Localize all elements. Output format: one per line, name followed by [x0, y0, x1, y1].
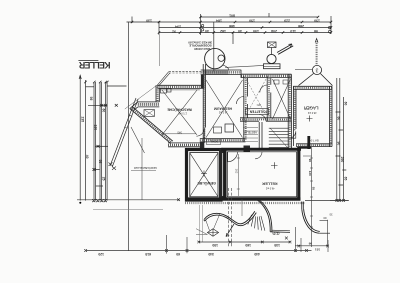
- svg-text:162: 162: [235, 169, 239, 174]
- title overline: [78, 59, 98, 61]
- svg-text:HEIZRAUM: HEIZRAUM: [214, 106, 232, 110]
- svg-text:160: 160: [245, 243, 251, 247]
- heizraum interior X: [206, 80, 243, 138]
- svg-text:TOILETTEN: TOILETTEN: [249, 109, 267, 113]
- svg-text:440: 440: [254, 252, 260, 256]
- terrain dashed line above north wall: [169, 71, 204, 73]
- svg-text:101: 101: [315, 248, 320, 252]
- lager north wall: [293, 86, 332, 89]
- svg-text:90: 90: [308, 159, 312, 163]
- dim boundary vertical x132: [131, 17, 133, 24]
- toiletten boxed label: [246, 109, 269, 115]
- zipper leader above circle 3: [316, 42, 318, 66]
- svg-text:46.0 m2: 46.0 m2: [265, 187, 274, 190]
- svg-text:294: 294: [175, 24, 181, 28]
- dim line L2: [159, 27, 331, 29]
- leader diagonal 2: [131, 127, 145, 153]
- wall vorkeller/toilet: [267, 76, 271, 122]
- svg-text:KELLER: KELLER: [78, 60, 110, 70]
- svg-text:95: 95: [98, 160, 102, 164]
- toilet room X: [273, 79, 291, 119]
- svg-text:3: 3: [315, 66, 318, 72]
- pipe line boiler to pump: [225, 65, 263, 67]
- light verticals x199.6/202.6: [199, 205, 201, 242]
- svg-text:120: 120: [308, 171, 312, 176]
- leader vertical x233: [232, 33, 234, 44]
- wall stub dark: [244, 146, 251, 152]
- svg-text:162: 162: [220, 29, 226, 33]
- terrain diagonal NW: [125, 86, 157, 110]
- abstell shelves: [243, 128, 258, 142]
- svg-text:340: 340: [208, 252, 214, 256]
- lager door arc: [289, 131, 296, 138]
- svg-text:229: 229: [284, 19, 290, 23]
- big east arc: [302, 202, 330, 234]
- svg-text:135: 135: [274, 243, 280, 247]
- svg-text:120: 120: [98, 252, 104, 256]
- east wall upper band hatched: [288, 74, 291, 148]
- svg-text:110: 110: [290, 29, 296, 33]
- right small dims: [320, 220, 328, 222]
- door arc wasch: [197, 128, 205, 136]
- central wall (wasch/heiz): [203, 64, 205, 143]
- gewoelbe walls thick: [187, 150, 222, 201]
- svg-text:60: 60: [323, 216, 327, 220]
- toilet fixtures: [274, 80, 279, 84]
- svg-text:55: 55: [312, 187, 316, 191]
- lager east wall: [329, 86, 332, 146]
- faint line y209.4: [93, 208, 163, 210]
- door arc toilet hall: [259, 115, 266, 122]
- svg-text:GEWÖLBEKELLER: GEWÖLBEKELLER: [134, 166, 157, 170]
- svg-text:60: 60: [344, 102, 348, 106]
- keller inner rect: [227, 152, 296, 197]
- svg-text:250: 250: [340, 157, 344, 163]
- left dim tick rows: [88, 104, 118, 186]
- label underline y170.3: [131, 169, 156, 171]
- svg-text:BILD 2/4020: BILD 2/4020: [194, 47, 210, 51]
- svg-text:130: 130: [94, 125, 98, 131]
- wing south wall: [168, 143, 200, 147]
- keller south wall: [186, 197, 301, 200]
- dim line L3: [159, 32, 331, 34]
- dim numbers (rotated 180): [146, 14, 320, 34]
- svg-text:345: 345: [177, 130, 182, 134]
- boiler big circle: [205, 48, 225, 68]
- north wall A (left) hatched: [157, 85, 203, 90]
- heiz south wall: [200, 139, 246, 142]
- svg-text:92: 92: [172, 29, 176, 33]
- svg-text:SCHL: SCHL: [210, 140, 218, 144]
- keller north wall: [221, 148, 301, 151]
- left dim verticals: [80, 76, 107, 201]
- pump top box with X: [268, 42, 277, 48]
- west wall waschkueche: [156, 85, 159, 102]
- boiler axis vertical: [213, 49, 215, 72]
- gewoelbe X vault: [190, 152, 219, 197]
- svg-text:KELLER: KELLER: [262, 182, 277, 186]
- svg-text:208: 208: [271, 29, 277, 33]
- pump link vertical: [271, 48, 273, 55]
- svg-text:164: 164: [216, 19, 222, 23]
- boiler inner circle: [218, 55, 224, 61]
- bottom dim line y246 right: [295, 245, 328, 247]
- central wall connector to gewoelbe: [200, 142, 205, 151]
- svg-text:150: 150: [212, 243, 218, 247]
- bottom verticals: [166, 235, 168, 254]
- roof lines from circle 3: [295, 70, 333, 86]
- svg-text:16.2 m2: 16.2 m2: [218, 111, 227, 114]
- left dim numbers (rotated 90): [81, 97, 106, 181]
- staircase: [269, 128, 289, 148]
- heizraum equipment: [225, 124, 234, 132]
- svg-text:BA 7.04: BA 7.04: [309, 139, 319, 143]
- long line y199.8 left: [77, 199, 179, 201]
- waschkueche dim marks: [162, 133, 196, 135]
- keller ne corner stub: [307, 136, 310, 149]
- dim ticks on top lines: [131, 16, 332, 34]
- svg-text:266: 266: [298, 24, 304, 28]
- lager cross mark: [307, 116, 313, 122]
- dim line L1 top long: [127, 21, 332, 23]
- gewoelbe cross: [201, 171, 207, 177]
- svg-text:28.0 m2: 28.0 m2: [307, 111, 316, 114]
- schl label box: [207, 139, 221, 145]
- svg-text:60: 60: [102, 109, 106, 113]
- wing elbow: [130, 102, 138, 111]
- wall mass between gewoelbe and keller: [219, 149, 227, 200]
- north wall B (center, boiler base): [201, 70, 241, 75]
- dim boundary vertical x200.5: [200, 14, 202, 35]
- dim vertical x242: [241, 199, 243, 216]
- svg-text:801: 801: [229, 14, 235, 18]
- door arc heiz: [236, 97, 243, 105]
- svg-text:65: 65: [344, 177, 348, 181]
- svg-text:40: 40: [85, 155, 89, 159]
- abstell partition wall: [259, 122, 262, 148]
- svg-text:WC: WC: [257, 103, 261, 107]
- keller inner dim line: [237, 154, 239, 196]
- diamond: [207, 229, 218, 237]
- svg-text:96: 96: [308, 242, 312, 246]
- svg-text:96: 96: [314, 29, 318, 33]
- arrow SW near dashed: [226, 224, 234, 237]
- keller east wall: [297, 147, 300, 200]
- vertical leader x142: [141, 138, 143, 200]
- svg-text:150: 150: [249, 19, 255, 23]
- svg-text:ABSTELLR: ABSTELLR: [244, 130, 257, 134]
- vorkeller dashed diagonals: [246, 79, 266, 115]
- tick above line x269: [268, 13, 270, 17]
- keller cross: [271, 162, 278, 169]
- dashed verticals x228/231: [227, 188, 229, 247]
- NW corner diagonal connector: [157, 72, 170, 86]
- diamond leaders: [214, 214, 220, 229]
- north wall jog at x201.5-204: [201, 75, 204, 89]
- stair fan: [248, 215, 265, 231]
- svg-text:25: 25: [102, 177, 106, 181]
- svg-text:60: 60: [337, 117, 341, 121]
- svg-text:17.5 m2: 17.5 m2: [178, 112, 187, 115]
- waschkueche interior X: [162, 90, 197, 135]
- arrow diagonal NE: [277, 44, 293, 54]
- dim boundary vertical x331: [330, 16, 332, 34]
- svg-text:56: 56: [89, 97, 93, 101]
- svg-text:90: 90: [337, 142, 341, 146]
- s-curve garden wall: [204, 211, 256, 225]
- svg-text:150: 150: [314, 19, 320, 23]
- keller door arc north: [228, 152, 238, 162]
- svg-text:60: 60: [176, 252, 180, 256]
- wall heiz/vorkeller: [244, 76, 248, 142]
- svg-text:30: 30: [238, 29, 242, 33]
- bottom long line y250.5: [86, 250, 312, 252]
- long vertical leader x128.4: [127, 22, 129, 251]
- waschkueche fixtures: [161, 89, 167, 94]
- lager south wall: [296, 144, 332, 147]
- bottom dim line y242: [199, 241, 290, 243]
- small circles on dim lines: [201, 24, 331, 33]
- leader vertical to boiler: [213, 22, 215, 49]
- door arc vorkeller: [260, 85, 267, 93]
- svg-text:30: 30: [205, 29, 209, 33]
- lager west wall: [293, 86, 296, 146]
- svg-text:LAGER: LAGER: [304, 105, 319, 110]
- arrowheads / top ticks of left dim lines: [79, 75, 126, 87]
- north wall C (right) hatched: [241, 70, 291, 78]
- svg-text:155: 155: [253, 29, 259, 33]
- wing small box: [144, 110, 155, 117]
- pump circle: [267, 54, 276, 63]
- left dim bottom x-ticks: [92, 199, 107, 202]
- wing SW diagonal wall: [130, 106, 173, 143]
- keller west wall: [223, 149, 226, 200]
- svg-text:466: 466: [229, 24, 235, 28]
- svg-text:235: 235: [81, 117, 85, 123]
- svg-text:615: 615: [145, 252, 151, 256]
- footing dotted strip: [185, 202, 305, 204]
- dim line L0 upper short: [201, 16, 319, 18]
- boiler outlet arc: [223, 65, 229, 70]
- pump base rect: [264, 64, 281, 69]
- long line y200.4 right: [305, 199, 349, 201]
- right curve wall: [257, 200, 291, 233]
- svg-text:130: 130: [146, 18, 152, 22]
- svg-text:35: 35: [329, 213, 333, 217]
- toilet south wall: [240, 118, 291, 121]
- svg-text:WASCHKÜCHE: WASCHKÜCHE: [167, 107, 192, 112]
- keller door arc 2: [255, 152, 262, 159]
- svg-text:(2,0): (2,0): [273, 232, 280, 236]
- dim boundary vertical x159: [158, 21, 160, 35]
- circle 3: [312, 65, 321, 74]
- svg-text:GEWÖLBE: GEWÖLBE: [197, 181, 216, 186]
- dim vertical x311.5: [311, 147, 313, 248]
- exterior ramp double diagonal: [109, 98, 139, 170]
- wing north wall: [138, 102, 160, 107]
- note text block (3 rotated lines): [188, 41, 212, 51]
- keller room walls: [186, 147, 301, 200]
